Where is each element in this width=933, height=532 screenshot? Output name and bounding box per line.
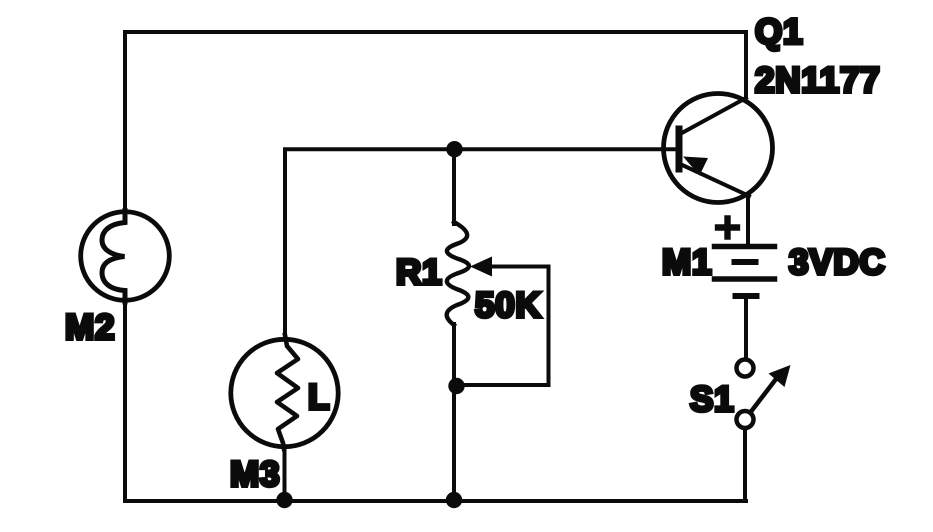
- junction dot base rail / R1: [446, 141, 462, 157]
- transistor Q1 circle: [664, 94, 773, 203]
- battery M1 plus sign: [718, 219, 737, 237]
- Q1 collector line: [680, 98, 746, 134]
- Q1 base bar: [676, 129, 683, 169]
- svg-text:Q1: Q1: [755, 13, 803, 52]
- junction dot wiper-R1: [448, 378, 464, 394]
- wire switch to bottom rail: [743, 428, 747, 501]
- wire emitter to battery: [746, 196, 750, 243]
- svg-text:M3: M3: [230, 455, 280, 494]
- svg-text:S1: S1: [690, 380, 734, 419]
- svg-text:R1: R1: [396, 253, 442, 292]
- switch S1 lever: [752, 379, 777, 411]
- battery M1 plate 2 short: [735, 259, 756, 265]
- svg-text:50K: 50K: [475, 286, 542, 325]
- junction dot R1-bottom: [446, 492, 462, 508]
- wire R1 bottom: [452, 324, 456, 501]
- wire top rail: [125, 32, 746, 210]
- Q1 emitter arrowhead: [683, 157, 708, 176]
- battery M1 plate 3 long: [715, 276, 775, 282]
- wire battery to switch: [744, 296, 748, 357]
- battery M1 plate 4 short: [736, 293, 757, 299]
- switch S1 top contact: [737, 360, 754, 377]
- svg-text:M1: M1: [662, 243, 712, 282]
- M2 filament: [102, 211, 125, 303]
- svg-text:2N1177: 2N1177: [755, 61, 880, 100]
- resistor R1 zigzag: [447, 222, 469, 325]
- battery M1 plate 1 long: [715, 244, 775, 250]
- wire wiper loop: [458, 267, 549, 386]
- Q1 emitter line: [680, 164, 749, 196]
- wire base rail: [285, 149, 677, 337]
- lamp M3: [231, 339, 338, 446]
- wire bottom rail: [125, 499, 746, 503]
- svg-text:3VDC: 3VDC: [789, 243, 886, 282]
- wire left rail lower: [123, 300, 127, 501]
- M3 filament zigzag: [277, 335, 298, 449]
- switch S1 lever arrowhead: [769, 365, 791, 387]
- svg-text:L: L: [308, 378, 330, 417]
- svg-text:M2: M2: [65, 308, 115, 347]
- wire M3 to bottom rail: [283, 447, 287, 501]
- R1 wiper arrowhead: [470, 257, 492, 277]
- lamp M2: [81, 212, 170, 301]
- wire R1 top: [452, 149, 456, 224]
- switch S1 bottom contact: [737, 411, 754, 428]
- junction dot M3-bottom: [276, 492, 292, 508]
